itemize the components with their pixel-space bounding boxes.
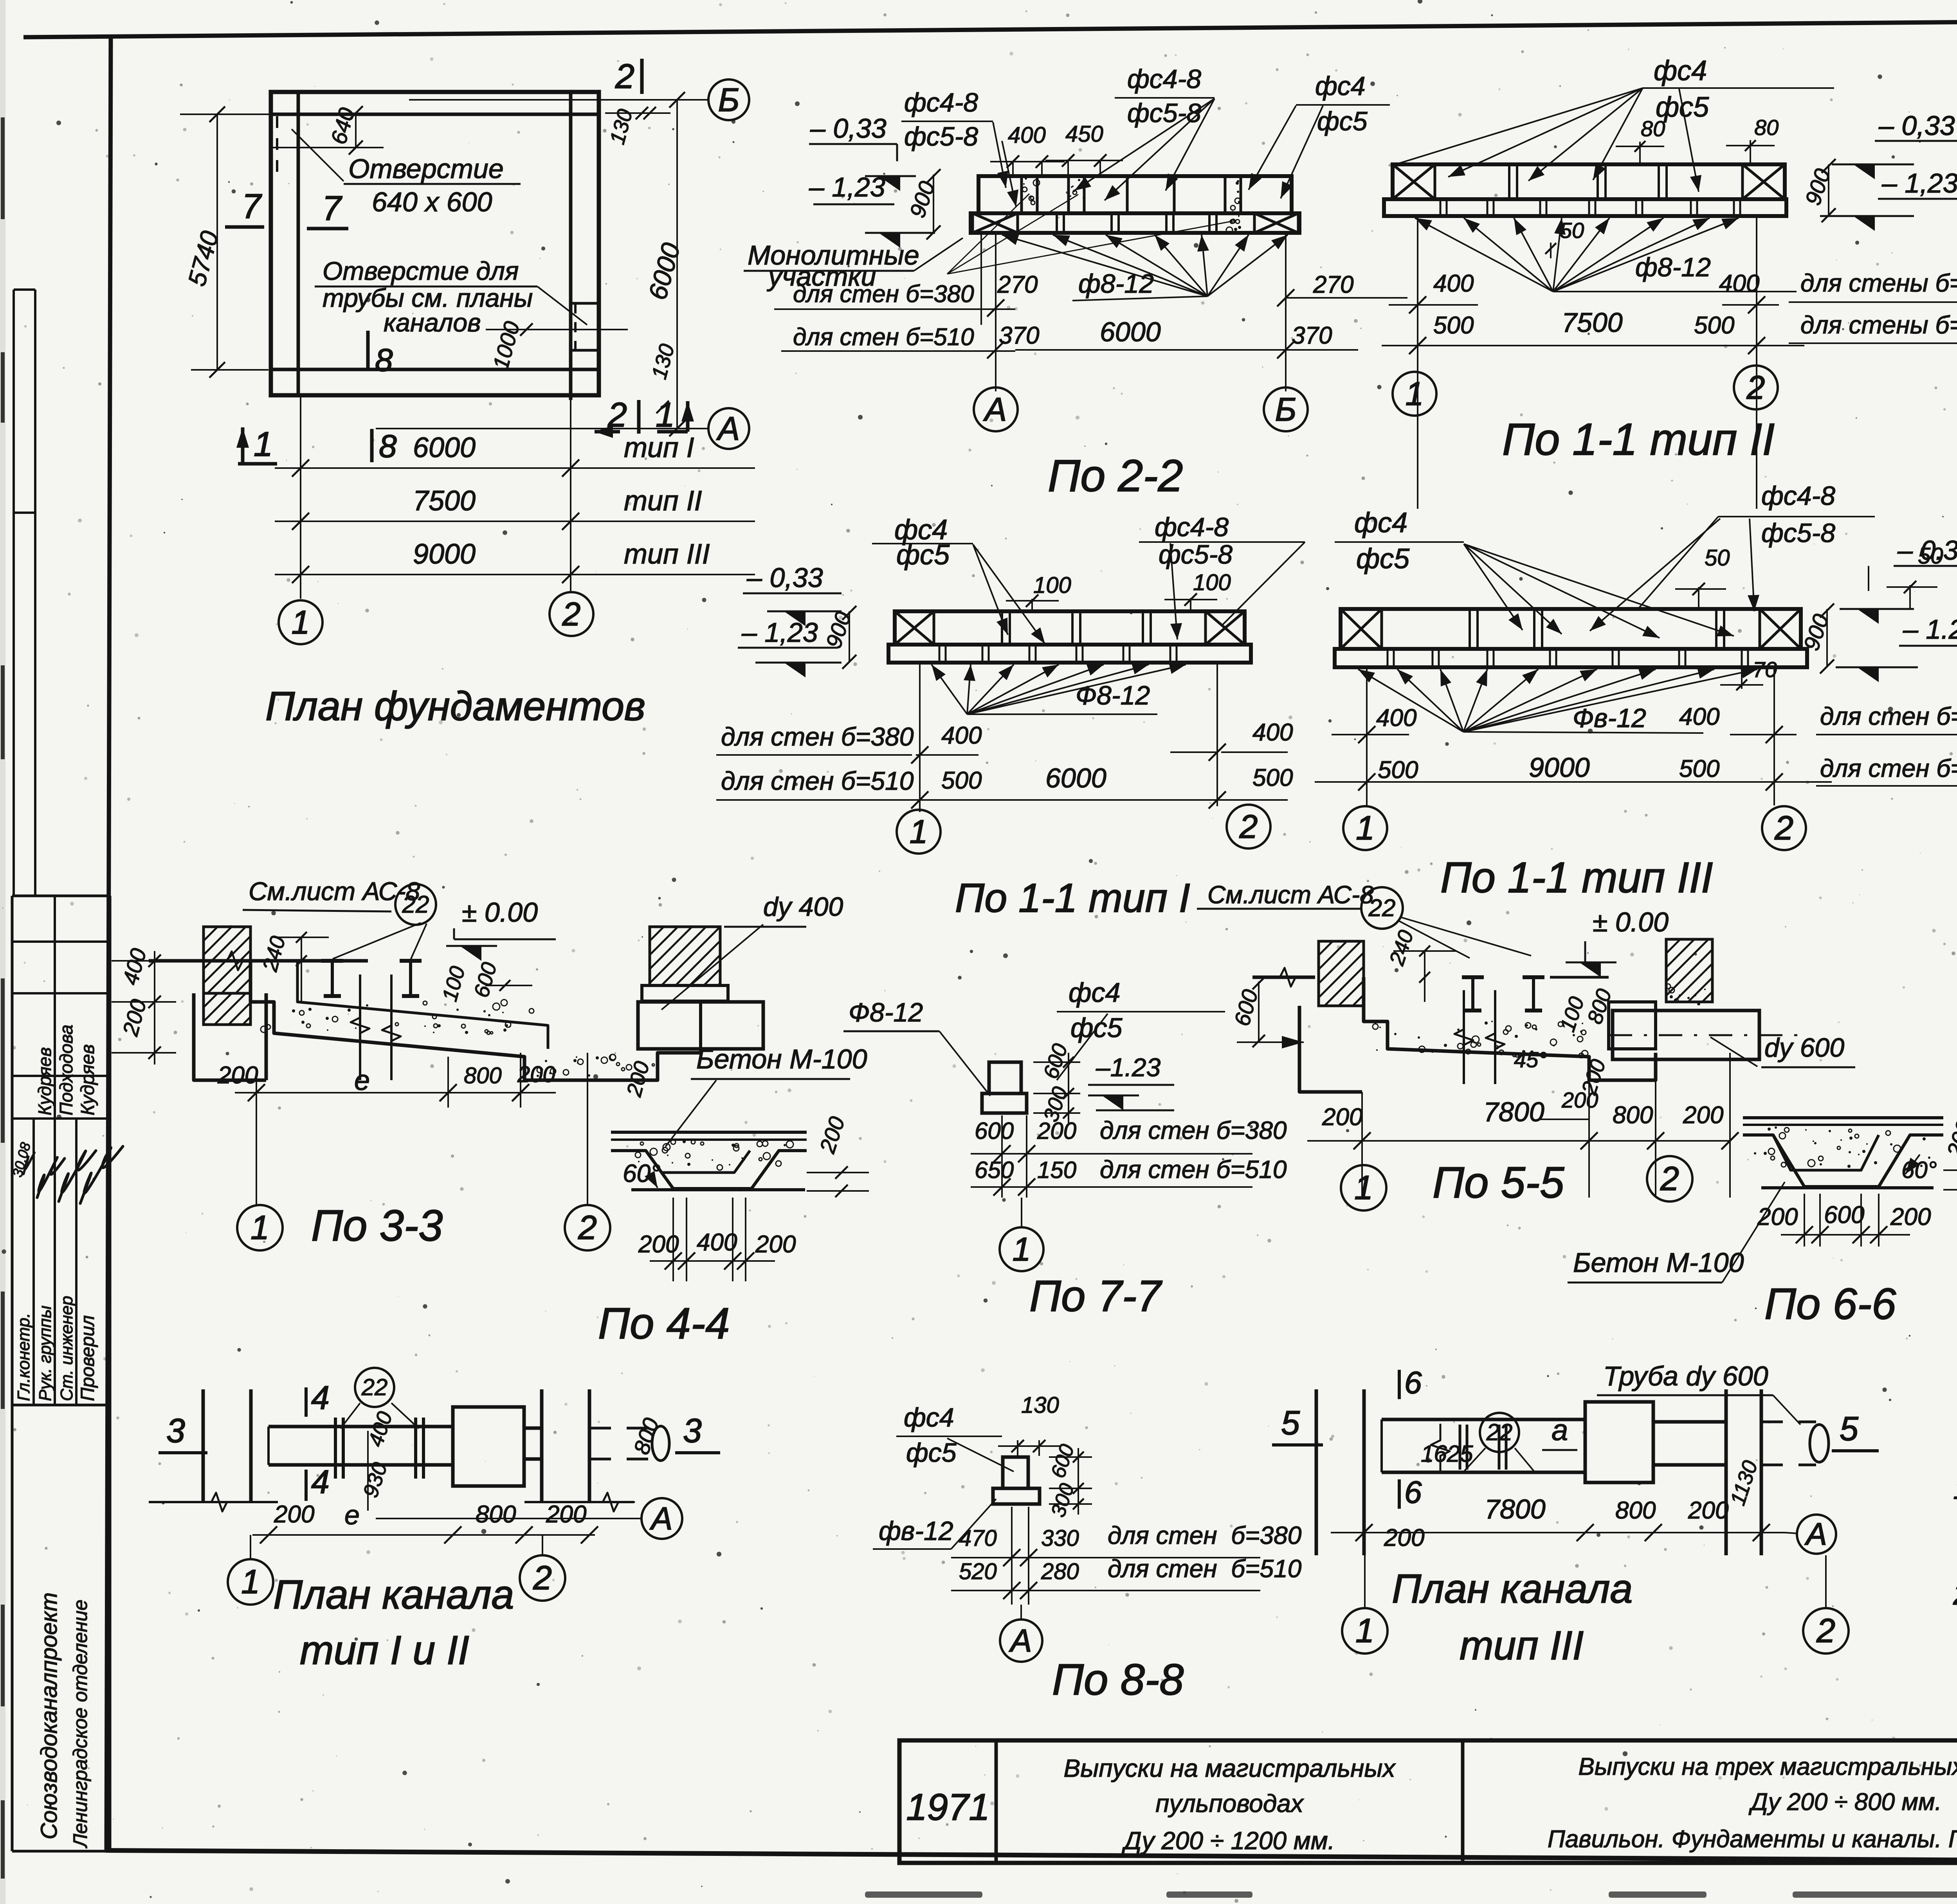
svg-text:Ду 200 ÷ 800 мм.: Ду 200 ÷ 800 мм. <box>1748 1789 1941 1816</box>
svg-text:7800: 7800 <box>1485 1494 1546 1524</box>
svg-text:1: 1 <box>1356 809 1375 847</box>
svg-text:270: 270 <box>1313 271 1353 298</box>
svg-text:для стен б=510: для стен б=510 <box>1100 1155 1287 1183</box>
svg-text:2: 2 <box>562 596 581 632</box>
svg-text:640 х 600: 640 х 600 <box>372 187 492 217</box>
svg-text:2 В местах прохождения трубы п: 2 В местах прохождения трубы по оси „2" … <box>1953 1578 1957 1611</box>
svg-text:200: 200 <box>1037 1118 1076 1144</box>
svg-text:6: 6 <box>1404 1365 1422 1400</box>
svg-text:22: 22 <box>402 891 429 918</box>
svg-text:Ф8-12: Ф8-12 <box>1076 681 1150 710</box>
svg-text:для стен б=510: для стен б=510 <box>793 324 974 351</box>
svg-text:для стен б=380: для стен б=380 <box>1108 1521 1302 1549</box>
svg-text:Кудряев: Кудряев <box>77 1044 98 1115</box>
svg-text:200: 200 <box>1688 1497 1728 1524</box>
svg-text:– 0,33: – 0,33 <box>746 562 823 593</box>
svg-text:для стен б=380: для стен б=380 <box>1820 702 1957 730</box>
svg-text:7800: 7800 <box>1483 1097 1544 1127</box>
svg-text:для стен б=380: для стен б=380 <box>721 722 914 751</box>
svg-text:По 8-8: По 8-8 <box>1052 1655 1184 1704</box>
svg-text:6: 6 <box>1404 1475 1422 1510</box>
svg-text:470: 470 <box>959 1526 997 1551</box>
svg-text:6000: 6000 <box>413 432 476 463</box>
svg-text:450: 450 <box>1065 121 1103 147</box>
svg-text:80: 80 <box>1641 116 1665 141</box>
svg-text:400: 400 <box>1376 704 1416 731</box>
svg-text:фс5: фс5 <box>1317 106 1368 136</box>
svg-text:200: 200 <box>217 1062 258 1089</box>
svg-text:Отверстие для: Отверстие для <box>323 256 519 285</box>
svg-text:Союзводоканалпроект: Союзводоканалпроект <box>36 1592 62 1839</box>
svg-text:По 1-1 тип II: По 1-1 тип II <box>1502 414 1775 465</box>
svg-text:1 Зазоры между блоками заделат: 1 Зазоры между блоками заделать цементны… <box>1953 1472 1957 1506</box>
svg-text:200: 200 <box>1322 1104 1362 1131</box>
svg-text:50: 50 <box>1705 545 1730 571</box>
svg-text:пульповодах: пульповодах <box>1155 1789 1304 1818</box>
svg-text:А: А <box>1804 1517 1827 1551</box>
svg-text:Подходова: Подходова <box>56 1025 76 1115</box>
svg-text:800: 800 <box>1613 1102 1653 1129</box>
svg-text:фс4: фс4 <box>1315 71 1366 101</box>
svg-text:600: 600 <box>975 1118 1014 1144</box>
svg-text:400: 400 <box>941 722 982 749</box>
svg-text:Павильон. Фундаменты и каналы.: Павильон. Фундаменты и каналы. Планы и р… <box>1548 1826 1957 1853</box>
svg-text:фс4: фс4 <box>904 1403 954 1432</box>
svg-text:400: 400 <box>1008 122 1046 148</box>
svg-text:По 7-7: По 7-7 <box>1029 1272 1162 1320</box>
svg-text:200: 200 <box>1561 1088 1598 1112</box>
svg-text:для стен б=380: для стен б=380 <box>1100 1116 1287 1144</box>
svg-text:тип III: тип III <box>624 539 710 570</box>
svg-text:2: 2 <box>578 1209 597 1247</box>
svg-text:3: 3 <box>683 1412 702 1450</box>
svg-text:200: 200 <box>1890 1203 1931 1230</box>
svg-text:– 0,33: – 0,33 <box>810 113 887 144</box>
svg-text:План канала: План канала <box>1392 1566 1633 1612</box>
svg-text:400: 400 <box>1679 703 1719 730</box>
svg-text:План фундаментов: План фундаментов <box>265 684 645 729</box>
svg-text:400: 400 <box>1719 270 1759 297</box>
svg-text:200: 200 <box>1757 1203 1798 1230</box>
svg-text:200: 200 <box>1384 1524 1424 1551</box>
svg-text:для стен б=510: для стен б=510 <box>1108 1555 1302 1583</box>
svg-text:для стены б=380: для стены б=380 <box>1800 269 1957 297</box>
svg-text:фс4: фс4 <box>1654 55 1707 86</box>
svg-text:Б: Б <box>1275 391 1297 428</box>
svg-text:500: 500 <box>1378 757 1418 784</box>
svg-text:400: 400 <box>697 1229 737 1256</box>
svg-text:270: 270 <box>997 271 1038 298</box>
svg-text:Ст. инженер: Ст. инженер <box>57 1296 76 1401</box>
svg-text:50: 50 <box>1560 218 1584 243</box>
svg-text:520: 520 <box>959 1559 997 1584</box>
svg-text:500: 500 <box>1252 764 1293 791</box>
svg-text:2: 2 <box>1746 369 1765 406</box>
svg-text:100: 100 <box>1193 570 1231 595</box>
svg-text:80: 80 <box>1754 115 1779 140</box>
svg-text:тип I и II: тип I и II <box>300 1628 469 1673</box>
svg-text:фв-12: фв-12 <box>879 1516 953 1546</box>
svg-text:е: е <box>344 1500 360 1530</box>
svg-text:ф8-12: ф8-12 <box>1635 252 1711 282</box>
svg-text:200: 200 <box>755 1231 796 1258</box>
svg-text:7: 7 <box>242 187 262 225</box>
svg-text:Бетон М-100: Бетон М-100 <box>1573 1247 1744 1278</box>
svg-text:– 0,33: – 0,33 <box>1878 110 1955 141</box>
svg-text:4: 4 <box>311 1379 330 1416</box>
svg-text:Б: Б <box>718 81 740 118</box>
svg-text:8: 8 <box>379 429 397 464</box>
svg-text:фс4-8: фс4-8 <box>904 88 978 117</box>
svg-text:– 1,23: – 1,23 <box>809 172 885 202</box>
svg-text:500: 500 <box>941 767 982 794</box>
svg-text:Отверстие: Отверстие <box>348 153 504 184</box>
svg-text:А: А <box>983 391 1007 428</box>
svg-text:для стен б=510: для стен б=510 <box>1820 754 1957 782</box>
svg-text:– 0.33: – 0.33 <box>1897 535 1957 566</box>
svg-text:фс5-8: фс5-8 <box>1127 98 1201 128</box>
svg-text:1: 1 <box>250 1209 269 1247</box>
svg-text:1: 1 <box>241 1563 260 1601</box>
svg-text:Выпуски на трех магистральных: Выпуски на трех магистральных пульповода… <box>1579 1753 1957 1780</box>
svg-text:для стены б=510: для стены б=510 <box>1800 311 1957 339</box>
svg-text:370: 370 <box>1292 322 1332 349</box>
svg-text:ф8-12: ф8-12 <box>1078 269 1154 299</box>
svg-text:± 0.00: ± 0.00 <box>462 897 538 928</box>
svg-text:фс5: фс5 <box>896 539 950 571</box>
svg-text:22: 22 <box>361 1374 388 1400</box>
svg-text:фс4: фс4 <box>1069 977 1120 1008</box>
svg-text:200: 200 <box>1683 1102 1723 1129</box>
svg-text:130: 130 <box>1021 1392 1059 1418</box>
svg-text:dy 600: dy 600 <box>1764 1033 1844 1063</box>
svg-text:2: 2 <box>1816 1612 1835 1650</box>
svg-text:– 1,23: – 1,23 <box>1881 168 1957 198</box>
svg-text:200: 200 <box>638 1231 679 1258</box>
svg-text:100: 100 <box>1033 573 1071 598</box>
svg-text:По 6-6: По 6-6 <box>1764 1279 1896 1328</box>
svg-text:280: 280 <box>1041 1559 1079 1584</box>
svg-text:Фв-12: Фв-12 <box>1573 703 1646 733</box>
svg-text:тип II: тип II <box>624 485 702 517</box>
svg-text:для стен б=510: для стен б=510 <box>721 766 914 795</box>
svg-text:По 2-2: По 2-2 <box>1048 451 1183 501</box>
svg-text:800: 800 <box>1615 1497 1656 1524</box>
svg-text:7500: 7500 <box>1562 307 1623 338</box>
svg-text:Рук. группы: Рук. группы <box>36 1306 55 1401</box>
svg-text:А: А <box>1009 1623 1032 1659</box>
svg-text:5: 5 <box>1840 1410 1859 1448</box>
svg-text:А: А <box>716 410 740 447</box>
svg-text:500: 500 <box>1679 755 1719 782</box>
svg-text:фс5: фс5 <box>1356 543 1410 575</box>
svg-text:800: 800 <box>476 1501 516 1528</box>
svg-text:800: 800 <box>464 1063 502 1088</box>
svg-text:200: 200 <box>546 1501 586 1528</box>
svg-text:Выпуски на магистральных: Выпуски на магистральных <box>1064 1754 1396 1782</box>
svg-text:1: 1 <box>1013 1231 1031 1268</box>
svg-text:7: 7 <box>322 189 342 227</box>
svg-text:Кудряев: Кудряев <box>34 1047 55 1115</box>
svg-text:1: 1 <box>1354 1169 1373 1207</box>
svg-text:фс4-8: фс4-8 <box>1127 64 1201 94</box>
svg-text:150: 150 <box>1037 1157 1076 1183</box>
svg-text:тип I: тип I <box>624 432 694 463</box>
svg-text:400: 400 <box>1433 270 1474 297</box>
svg-text:Проверил: Проверил <box>77 1315 98 1401</box>
svg-text:1: 1 <box>910 813 928 850</box>
svg-text:1: 1 <box>292 604 310 641</box>
svg-text:А: А <box>649 1501 673 1537</box>
svg-text:1625: 1625 <box>1421 1441 1473 1467</box>
svg-text:фс4-8: фс4-8 <box>1155 512 1229 542</box>
svg-text:См.лист АС-8: См.лист АС-8 <box>1207 881 1374 909</box>
svg-text:По 4-4: По 4-4 <box>598 1299 730 1348</box>
svg-text:Ду 200 ÷ 1200 мм.: Ду 200 ÷ 1200 мм. <box>1122 1827 1335 1855</box>
svg-text:Труба dy 600: Труба dy 600 <box>1603 1361 1768 1391</box>
svg-text:Ф8-12: Ф8-12 <box>849 998 923 1027</box>
svg-text:По 1-1 тип I: По 1-1 тип I <box>955 875 1190 921</box>
svg-text:фс5: фс5 <box>906 1438 957 1468</box>
svg-text:фс5-8: фс5-8 <box>1761 518 1835 548</box>
svg-text:400: 400 <box>1252 719 1293 746</box>
svg-text:1971: 1971 <box>906 1786 990 1828</box>
svg-text:5: 5 <box>1281 1404 1300 1442</box>
svg-text:a: a <box>1552 1414 1568 1447</box>
svg-text:План канала: План канала <box>273 1572 514 1618</box>
svg-text:6000: 6000 <box>1100 317 1161 347</box>
svg-text:–1.23: –1.23 <box>1096 1053 1161 1082</box>
svg-text:– 1.23: – 1.23 <box>1903 614 1957 645</box>
svg-text:фс4: фс4 <box>1354 507 1407 539</box>
svg-text:2: 2 <box>1239 808 1258 845</box>
svg-text:1: 1 <box>1355 1612 1374 1650</box>
svg-text:7500: 7500 <box>413 485 476 517</box>
svg-text:650: 650 <box>975 1157 1014 1183</box>
svg-text:е: е <box>354 1065 370 1096</box>
svg-text:8: 8 <box>375 342 393 378</box>
svg-text:370: 370 <box>999 322 1039 349</box>
svg-text:6000: 6000 <box>1045 763 1106 793</box>
svg-text:2: 2 <box>1660 1160 1679 1198</box>
svg-text:для стен б=380: для стен б=380 <box>793 281 974 308</box>
svg-text:600: 600 <box>1824 1201 1864 1229</box>
svg-text:По 3-3: По 3-3 <box>311 1201 443 1250</box>
svg-text:45°: 45° <box>1514 1047 1547 1072</box>
svg-text:2: 2 <box>615 57 634 95</box>
svg-text:1: 1 <box>656 395 675 434</box>
svg-text:330: 330 <box>1041 1526 1079 1551</box>
svg-text:– 1,23: – 1,23 <box>741 617 818 648</box>
svg-text:200: 200 <box>517 1062 555 1087</box>
svg-text:тип III: тип III <box>1460 1623 1584 1668</box>
svg-text:1: 1 <box>1406 375 1424 412</box>
svg-text:Ленинградское отделение: Ленинградское отделение <box>69 1600 91 1848</box>
svg-text:фс4-8: фс4-8 <box>1761 481 1835 511</box>
svg-text:Бетон М-100: Бетон М-100 <box>696 1044 867 1074</box>
svg-text:2: 2 <box>1774 809 1793 847</box>
svg-text:фс5-8: фс5-8 <box>904 122 978 151</box>
svg-text:3: 3 <box>166 1412 185 1450</box>
svg-text:500: 500 <box>1433 312 1474 339</box>
svg-text:По 5-5: По 5-5 <box>1433 1158 1564 1207</box>
svg-text:По 1-1 тип III: По 1-1 тип III <box>1440 854 1713 902</box>
svg-text:2: 2 <box>533 1559 552 1597</box>
svg-text:200: 200 <box>274 1501 314 1528</box>
svg-text:1: 1 <box>254 425 273 463</box>
svg-text:500: 500 <box>1694 312 1734 339</box>
svg-text:22: 22 <box>1368 895 1396 922</box>
svg-text:9000: 9000 <box>413 539 476 570</box>
svg-text:9000: 9000 <box>1529 752 1590 783</box>
svg-text:dy 400: dy 400 <box>763 892 843 922</box>
svg-text:Гл.конетр.: Гл.конетр. <box>14 1313 33 1401</box>
svg-text:± 0.00: ± 0.00 <box>1593 907 1669 937</box>
svg-text:каналов: каналов <box>384 308 481 337</box>
svg-text:4: 4 <box>311 1463 330 1500</box>
